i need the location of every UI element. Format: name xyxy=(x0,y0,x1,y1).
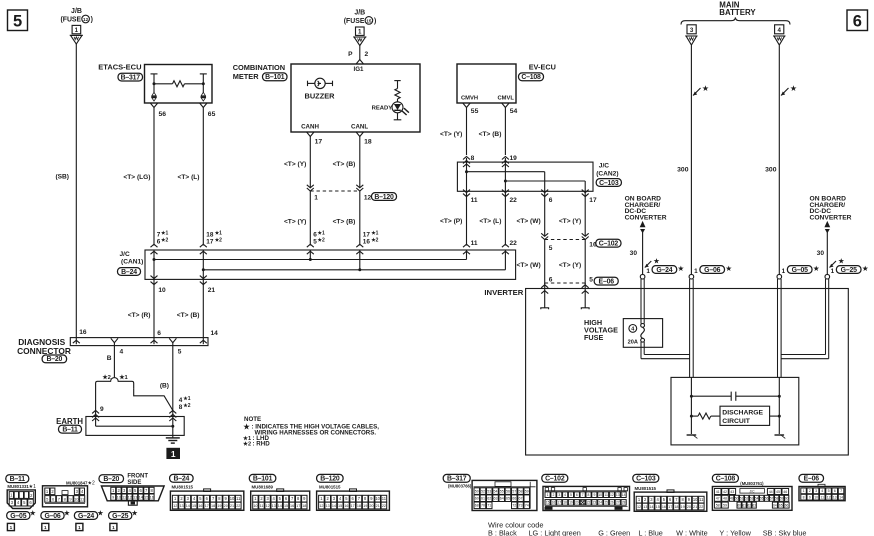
J/C (CAN1) box B-24 xyxy=(145,250,516,279)
wire (T)(B) CAN1-21 to diag 14 xyxy=(202,279,204,344)
svg-text:12: 12 xyxy=(266,504,270,508)
svg-text:8: 8 xyxy=(681,497,684,502)
wire RHD branch to earth pin 4/8 xyxy=(134,389,173,411)
dashed connector line C-102 xyxy=(545,239,586,241)
CAN1 internal bus CANL xyxy=(202,250,506,271)
wire (T)(W) CAN2-6 upper xyxy=(544,191,546,235)
svg-text:★2: ★2 xyxy=(243,441,251,448)
svg-text:16: 16 xyxy=(344,504,348,508)
svg-text:41: 41 xyxy=(716,490,720,494)
svg-text:2: 2 xyxy=(552,493,554,497)
svg-text:48: 48 xyxy=(723,497,727,501)
svg-text:<T> (Y): <T> (Y) xyxy=(559,218,581,225)
svg-text:G–25: G–25 xyxy=(841,267,857,274)
svg-text:51: 51 xyxy=(740,497,744,501)
connector pinout C-102 xyxy=(542,474,630,510)
svg-text:15: 15 xyxy=(192,504,196,508)
svg-text:66: 66 xyxy=(512,497,516,501)
HIGH VOLTAGE FUSE box xyxy=(623,319,662,348)
svg-text:SB : Sky blue: SB : Sky blue xyxy=(763,528,807,536)
svg-text:G–05: G–05 xyxy=(10,513,26,520)
svg-text:54: 54 xyxy=(755,497,759,501)
svg-text:★: ★ xyxy=(243,421,251,431)
svg-text:11: 11 xyxy=(821,495,825,499)
svg-text:B–317: B–317 xyxy=(447,476,467,483)
HV cable G-25 to G-05 junction xyxy=(781,279,829,359)
svg-text:5: 5 xyxy=(199,496,202,501)
svg-text:8: 8 xyxy=(471,155,475,162)
resistor R1 xyxy=(690,413,720,419)
svg-text:★: ★ xyxy=(702,84,709,93)
svg-text:11: 11 xyxy=(699,497,704,502)
svg-text:IG1: IG1 xyxy=(354,66,365,73)
svg-text:W : White: W : White xyxy=(676,528,708,536)
wire (B) from diag 5 to earth xyxy=(172,343,174,417)
svg-text:5: 5 xyxy=(828,489,830,493)
CAN2 bottom pin 22 xyxy=(502,190,509,193)
svg-text:10: 10 xyxy=(230,496,235,501)
internal HV bus left xyxy=(690,377,692,434)
svg-text:18: 18 xyxy=(302,504,306,508)
svg-text:17: 17 xyxy=(206,238,214,245)
svg-text:6: 6 xyxy=(669,497,672,502)
svg-text:22: 22 xyxy=(587,501,591,505)
svg-text:9: 9 xyxy=(69,496,72,501)
svg-text:B–20: B–20 xyxy=(103,476,119,483)
CAN1 top entry pin 17/16 xyxy=(356,244,363,247)
svg-text:9: 9 xyxy=(225,496,228,501)
svg-text:23: 23 xyxy=(593,501,597,505)
svg-text:71: 71 xyxy=(487,504,491,508)
svg-text:MU801515: MU801515 xyxy=(635,486,657,491)
wire (T)(L) CAN2-22 to CAN1-22 xyxy=(504,191,506,245)
connector pinout B-120 xyxy=(317,474,390,510)
svg-text:2: 2 xyxy=(30,493,33,498)
svg-text:11: 11 xyxy=(122,496,126,500)
svg-text:12: 12 xyxy=(827,495,831,499)
svg-text:4: 4 xyxy=(17,500,20,505)
connector pinout C-108 xyxy=(712,474,792,510)
svg-text:22: 22 xyxy=(699,505,703,509)
COMBINATION METER box B-101 xyxy=(233,63,420,132)
HV cable G-05 to discharge circuit xyxy=(777,279,779,377)
svg-text:2: 2 xyxy=(365,51,369,58)
svg-text:5: 5 xyxy=(13,13,22,31)
HV connector G-05 xyxy=(777,264,820,279)
svg-text:9: 9 xyxy=(303,496,306,501)
svg-text:5: 5 xyxy=(23,500,26,505)
svg-text:58: 58 xyxy=(519,489,523,493)
svg-text:E–06: E–06 xyxy=(804,476,820,483)
CAN1 through wires xyxy=(153,250,155,279)
svg-text:<T> (Y): <T> (Y) xyxy=(284,161,306,168)
battery connector 3 xyxy=(687,25,696,34)
svg-text:56: 56 xyxy=(159,111,167,118)
svg-text:★1: ★1 xyxy=(161,230,168,236)
svg-text:8: 8 xyxy=(364,496,367,501)
wire EV55 (T)(Y) xyxy=(466,108,468,156)
svg-text:CANL: CANL xyxy=(351,124,368,131)
svg-text:INVERTER: INVERTER xyxy=(484,288,523,297)
svg-text:J/B: J/B xyxy=(354,10,365,17)
svg-text:12: 12 xyxy=(128,496,132,500)
svg-text:3: 3 xyxy=(76,489,79,494)
svg-text:<T> (Y): <T> (Y) xyxy=(440,131,462,138)
wire (SB): J/B fuse12 to diagnosis pin 16 xyxy=(75,44,77,344)
svg-text:56: 56 xyxy=(765,497,769,501)
wire to earth pin 9 (LHD branch) xyxy=(95,386,97,417)
svg-text:42: 42 xyxy=(723,490,727,494)
svg-text:13: 13 xyxy=(133,496,137,500)
svg-text:(B): (B) xyxy=(160,383,169,390)
svg-text:14: 14 xyxy=(186,504,190,508)
CAN1 top entry pin 18/17 xyxy=(200,244,207,247)
svg-text:59: 59 xyxy=(525,489,529,493)
power feed J/B (FUSE 15) xyxy=(344,10,376,46)
connector pinout G-24 xyxy=(74,508,104,530)
svg-text:14: 14 xyxy=(839,495,843,499)
svg-text:7: 7 xyxy=(58,496,61,501)
svg-text:10: 10 xyxy=(598,493,602,497)
svg-text:3: 3 xyxy=(11,500,14,505)
svg-text:<T> (W): <T> (W) xyxy=(517,218,541,225)
svg-text:22: 22 xyxy=(510,240,518,247)
svg-text:2: 2 xyxy=(326,496,329,501)
wire CANH (T)(Y) lower xyxy=(309,191,311,246)
ETACS pin 65 xyxy=(200,103,207,107)
svg-text:1: 1 xyxy=(171,449,176,459)
svg-text:3: 3 xyxy=(333,496,336,501)
svg-text:C–102: C–102 xyxy=(545,476,565,483)
svg-text:50: 50 xyxy=(735,497,739,501)
svg-text:★2: ★2 xyxy=(88,481,95,487)
svg-text:3: 3 xyxy=(266,496,269,501)
svg-text:12: 12 xyxy=(364,195,372,202)
svg-text:G–25: G–25 xyxy=(112,513,128,520)
svg-text:B–101: B–101 xyxy=(253,476,273,483)
CAN2 bottom pin 11 xyxy=(463,190,470,193)
svg-text:G–06: G–06 xyxy=(44,513,60,520)
svg-text:5: 5 xyxy=(570,493,572,497)
svg-text:<T> (LG): <T> (LG) xyxy=(123,174,150,181)
READY indicator LED with resistor xyxy=(372,81,409,120)
svg-text:30: 30 xyxy=(817,250,825,257)
svg-text:8: 8 xyxy=(151,488,154,493)
svg-text:1: 1 xyxy=(254,496,257,501)
diag entry chevrons 16,6,14 xyxy=(73,340,80,343)
EV-ECU box C-108 xyxy=(457,62,556,103)
svg-text:64: 64 xyxy=(773,503,777,507)
svg-text:5: 5 xyxy=(279,496,282,501)
HV connector G-06 xyxy=(689,264,732,279)
svg-text:7: 7 xyxy=(840,489,842,493)
svg-text:21: 21 xyxy=(230,504,234,508)
svg-text:★1: ★1 xyxy=(119,374,128,381)
svg-text:61: 61 xyxy=(481,497,485,501)
HV connector G-25 xyxy=(825,264,869,279)
connector pinout B-20 xyxy=(99,473,164,505)
svg-text:1: 1 xyxy=(174,496,177,501)
connector label C-108 xyxy=(519,73,544,81)
wire B from diag 4 xyxy=(113,343,115,378)
svg-text:6: 6 xyxy=(157,330,161,337)
ground symbol xyxy=(166,435,180,443)
svg-text:44: 44 xyxy=(769,490,773,494)
svg-text:★: ★ xyxy=(790,84,797,93)
svg-text:19: 19 xyxy=(569,501,573,505)
svg-text:B–20: B–20 xyxy=(47,356,63,363)
svg-text:4: 4 xyxy=(777,27,781,34)
svg-text:1: 1 xyxy=(782,268,786,275)
svg-text:1: 1 xyxy=(314,195,318,202)
CAN1 top entry pin 7/6 xyxy=(151,244,158,247)
svg-text:63: 63 xyxy=(752,503,756,507)
battery wire 3 (HV) xyxy=(690,45,692,274)
svg-text:55: 55 xyxy=(760,497,764,501)
svg-text:6: 6 xyxy=(576,493,578,497)
svg-text:★: ★ xyxy=(725,264,732,273)
J/C (CAN2) box C-103 xyxy=(457,162,593,191)
wire EV54 (T)(B) xyxy=(504,108,506,156)
star marker on battery wire 4 xyxy=(781,88,789,96)
svg-text:C–102: C–102 xyxy=(599,241,619,248)
svg-text:1: 1 xyxy=(44,525,47,530)
svg-text:12: 12 xyxy=(637,505,641,509)
star marker G-25 wire xyxy=(830,261,837,268)
svg-text:B–24: B–24 xyxy=(121,269,137,276)
svg-text:53: 53 xyxy=(487,489,491,493)
svg-text:5: 5 xyxy=(345,496,348,501)
wire (T)(R) CAN1-10 to diag 6 xyxy=(153,279,155,344)
svg-text:55: 55 xyxy=(471,108,479,115)
svg-text:2: 2 xyxy=(51,489,54,494)
sheet number 5 xyxy=(8,10,28,31)
svg-text:9: 9 xyxy=(112,496,114,500)
svg-text:11: 11 xyxy=(236,496,241,501)
svg-text:59: 59 xyxy=(780,497,784,501)
svg-text:FRONT: FRONT xyxy=(127,473,148,479)
wire (T)(Y) CAN2-17 upper xyxy=(584,191,586,235)
svg-text:(SB): (SB) xyxy=(55,174,69,181)
DIAGNOSIS CONNECTOR box B-20 xyxy=(70,338,208,346)
svg-text:8: 8 xyxy=(803,495,805,499)
svg-text:16: 16 xyxy=(662,505,666,509)
svg-text:16: 16 xyxy=(363,238,371,245)
connector label B-101 xyxy=(263,73,288,81)
svg-text:13: 13 xyxy=(272,504,276,508)
CAN1 top entry pin 6/5 xyxy=(307,244,314,247)
svg-text:16: 16 xyxy=(290,504,294,508)
connector pinout MU801847 xyxy=(43,481,95,507)
svg-text:11: 11 xyxy=(382,496,387,501)
svg-text:MU801689: MU801689 xyxy=(252,484,274,489)
svg-text:63: 63 xyxy=(494,497,498,501)
svg-text:MU801847: MU801847 xyxy=(66,481,88,486)
svg-text:20A: 20A xyxy=(628,339,638,345)
svg-text:17: 17 xyxy=(363,231,371,238)
svg-text:14: 14 xyxy=(332,504,336,508)
svg-text:★: ★ xyxy=(29,508,36,517)
svg-text:15: 15 xyxy=(284,504,288,508)
svg-text:CANH: CANH xyxy=(301,124,319,131)
svg-text:15: 15 xyxy=(144,496,148,500)
svg-text:1: 1 xyxy=(46,489,49,494)
svg-text:6: 6 xyxy=(285,496,288,501)
svg-text:17: 17 xyxy=(205,504,209,508)
svg-text:★: ★ xyxy=(64,508,71,517)
svg-text:<T> (B): <T> (B) xyxy=(333,219,356,226)
svg-text:65: 65 xyxy=(208,111,216,118)
svg-text:17: 17 xyxy=(351,504,355,508)
svg-text:4: 4 xyxy=(339,496,342,501)
fuse rating circled 4 xyxy=(629,325,637,333)
svg-text:7: 7 xyxy=(212,496,215,501)
ground reference marker 1 xyxy=(166,448,180,459)
connector pinout G-25 xyxy=(109,508,139,530)
svg-text:MU801515: MU801515 xyxy=(172,484,194,489)
wire CANH meter17 (T)(Y) upper xyxy=(309,137,311,188)
svg-text:67: 67 xyxy=(519,497,523,501)
svg-text:METER: METER xyxy=(233,72,260,81)
svg-text:9: 9 xyxy=(100,406,104,413)
HV cable G-24 to fuse xyxy=(640,279,642,324)
svg-text:E–06: E–06 xyxy=(599,278,615,285)
svg-text:6: 6 xyxy=(52,496,55,501)
svg-text:30: 30 xyxy=(630,250,638,257)
svg-text:13: 13 xyxy=(326,504,330,508)
svg-text:1: 1 xyxy=(694,268,698,275)
svg-text:★2: ★2 xyxy=(183,403,190,409)
svg-text:C–103: C–103 xyxy=(636,476,656,483)
svg-text:8: 8 xyxy=(297,496,300,501)
diag exit forks 4,5 xyxy=(111,338,118,342)
svg-text:58: 58 xyxy=(716,503,720,507)
svg-text:B–317: B–317 xyxy=(121,74,141,81)
svg-text:53: 53 xyxy=(750,497,754,501)
svg-text:54: 54 xyxy=(494,489,498,493)
svg-text:16: 16 xyxy=(198,504,202,508)
svg-text:1: 1 xyxy=(112,488,115,493)
svg-text:ETACS-ECU: ETACS-ECU xyxy=(98,62,141,71)
svg-text:9: 9 xyxy=(593,493,595,497)
svg-text:2: 2 xyxy=(118,488,121,493)
svg-text:CONVERTER: CONVERTER xyxy=(810,215,852,222)
svg-text:5: 5 xyxy=(663,497,666,502)
svg-text:70: 70 xyxy=(481,504,485,508)
svg-text:10: 10 xyxy=(74,496,79,501)
sheet number 6 xyxy=(847,10,868,31)
svg-text:4: 4 xyxy=(631,327,634,333)
discharge assembly box xyxy=(671,377,799,445)
earth pin labels 4*1 8*2 xyxy=(179,396,191,411)
svg-text:G–24: G–24 xyxy=(78,513,94,520)
svg-text:4: 4 xyxy=(193,496,196,501)
svg-text:47: 47 xyxy=(716,497,720,501)
svg-text:65: 65 xyxy=(779,503,783,507)
svg-text:4: 4 xyxy=(564,493,566,497)
svg-text:C–108: C–108 xyxy=(716,476,736,483)
svg-text:B–120: B–120 xyxy=(320,476,340,483)
svg-text:(MU803766): (MU803766) xyxy=(448,484,472,489)
svg-text:8: 8 xyxy=(588,493,590,497)
svg-text:12: 12 xyxy=(319,504,323,508)
svg-text:10: 10 xyxy=(253,504,257,508)
svg-text:56: 56 xyxy=(506,489,510,493)
note text xyxy=(243,416,380,448)
svg-text:300: 300 xyxy=(677,167,689,174)
power feed J/B (FUSE 12) xyxy=(60,8,92,44)
svg-text:1: 1 xyxy=(803,489,805,493)
svg-text:C–103: C–103 xyxy=(599,180,619,187)
connector pinout G-05 xyxy=(7,508,37,530)
wire CANL meter18 (T)(B) upper xyxy=(359,137,361,188)
svg-text:4: 4 xyxy=(120,349,124,356)
svg-text:64: 64 xyxy=(500,497,504,501)
svg-text:8: 8 xyxy=(64,496,67,501)
svg-text:CIRCUIT: CIRCUIT xyxy=(722,418,750,425)
star marker G-24 wire xyxy=(645,261,652,268)
svg-text:300: 300 xyxy=(765,167,777,174)
connector label B-24 (CAN1) xyxy=(118,268,141,276)
svg-text:11: 11 xyxy=(471,240,478,247)
svg-text:5: 5 xyxy=(549,245,553,252)
svg-text:5: 5 xyxy=(134,488,137,493)
svg-text:20: 20 xyxy=(224,504,228,508)
svg-text:1: 1 xyxy=(638,497,641,502)
svg-text:14: 14 xyxy=(278,504,282,508)
svg-text:5: 5 xyxy=(178,349,182,356)
connector pinout B-24 xyxy=(170,474,244,510)
CAN1 bottom pin 10 xyxy=(151,276,158,279)
svg-text:4: 4 xyxy=(129,488,132,493)
svg-text:26: 26 xyxy=(610,501,614,505)
svg-text:(FUSE: (FUSE xyxy=(344,18,365,25)
svg-text:20: 20 xyxy=(369,504,373,508)
svg-text:COMBINATION: COMBINATION xyxy=(233,63,285,72)
svg-text:6: 6 xyxy=(351,496,354,501)
connector label B-317 xyxy=(118,73,143,81)
svg-text:1: 1 xyxy=(831,268,835,275)
ETACS internal terminating resistor xyxy=(151,74,207,87)
svg-text:14: 14 xyxy=(211,330,219,337)
svg-text:Y : Yellow: Y : Yellow xyxy=(719,528,751,536)
svg-text:): ) xyxy=(91,16,93,23)
svg-text:15: 15 xyxy=(546,501,550,505)
junction C-102 pin5 xyxy=(541,237,548,240)
CAN1 top entry pin 11 xyxy=(463,244,470,247)
svg-text:10: 10 xyxy=(814,495,818,499)
svg-text:BUZZER: BUZZER xyxy=(305,91,336,100)
svg-text:62: 62 xyxy=(747,503,751,507)
svg-text:49: 49 xyxy=(730,497,734,501)
buzzer xyxy=(305,78,336,100)
svg-text:3: 3 xyxy=(650,497,653,502)
svg-text:J/C: J/C xyxy=(749,489,755,493)
svg-text:16: 16 xyxy=(552,501,556,505)
connector label B-11 (earth) xyxy=(59,425,82,433)
svg-text:★: ★ xyxy=(97,508,104,517)
svg-text:6: 6 xyxy=(140,488,143,493)
svg-text:12: 12 xyxy=(83,17,89,22)
svg-text:1: 1 xyxy=(112,525,115,530)
svg-text:18: 18 xyxy=(563,501,567,505)
svg-text:EV-ECU: EV-ECU xyxy=(529,62,556,71)
svg-text:7: 7 xyxy=(145,488,148,493)
svg-text:6: 6 xyxy=(29,500,32,505)
svg-text:68: 68 xyxy=(475,504,479,508)
svg-text:52: 52 xyxy=(745,497,749,501)
INVERTER box xyxy=(526,289,849,456)
